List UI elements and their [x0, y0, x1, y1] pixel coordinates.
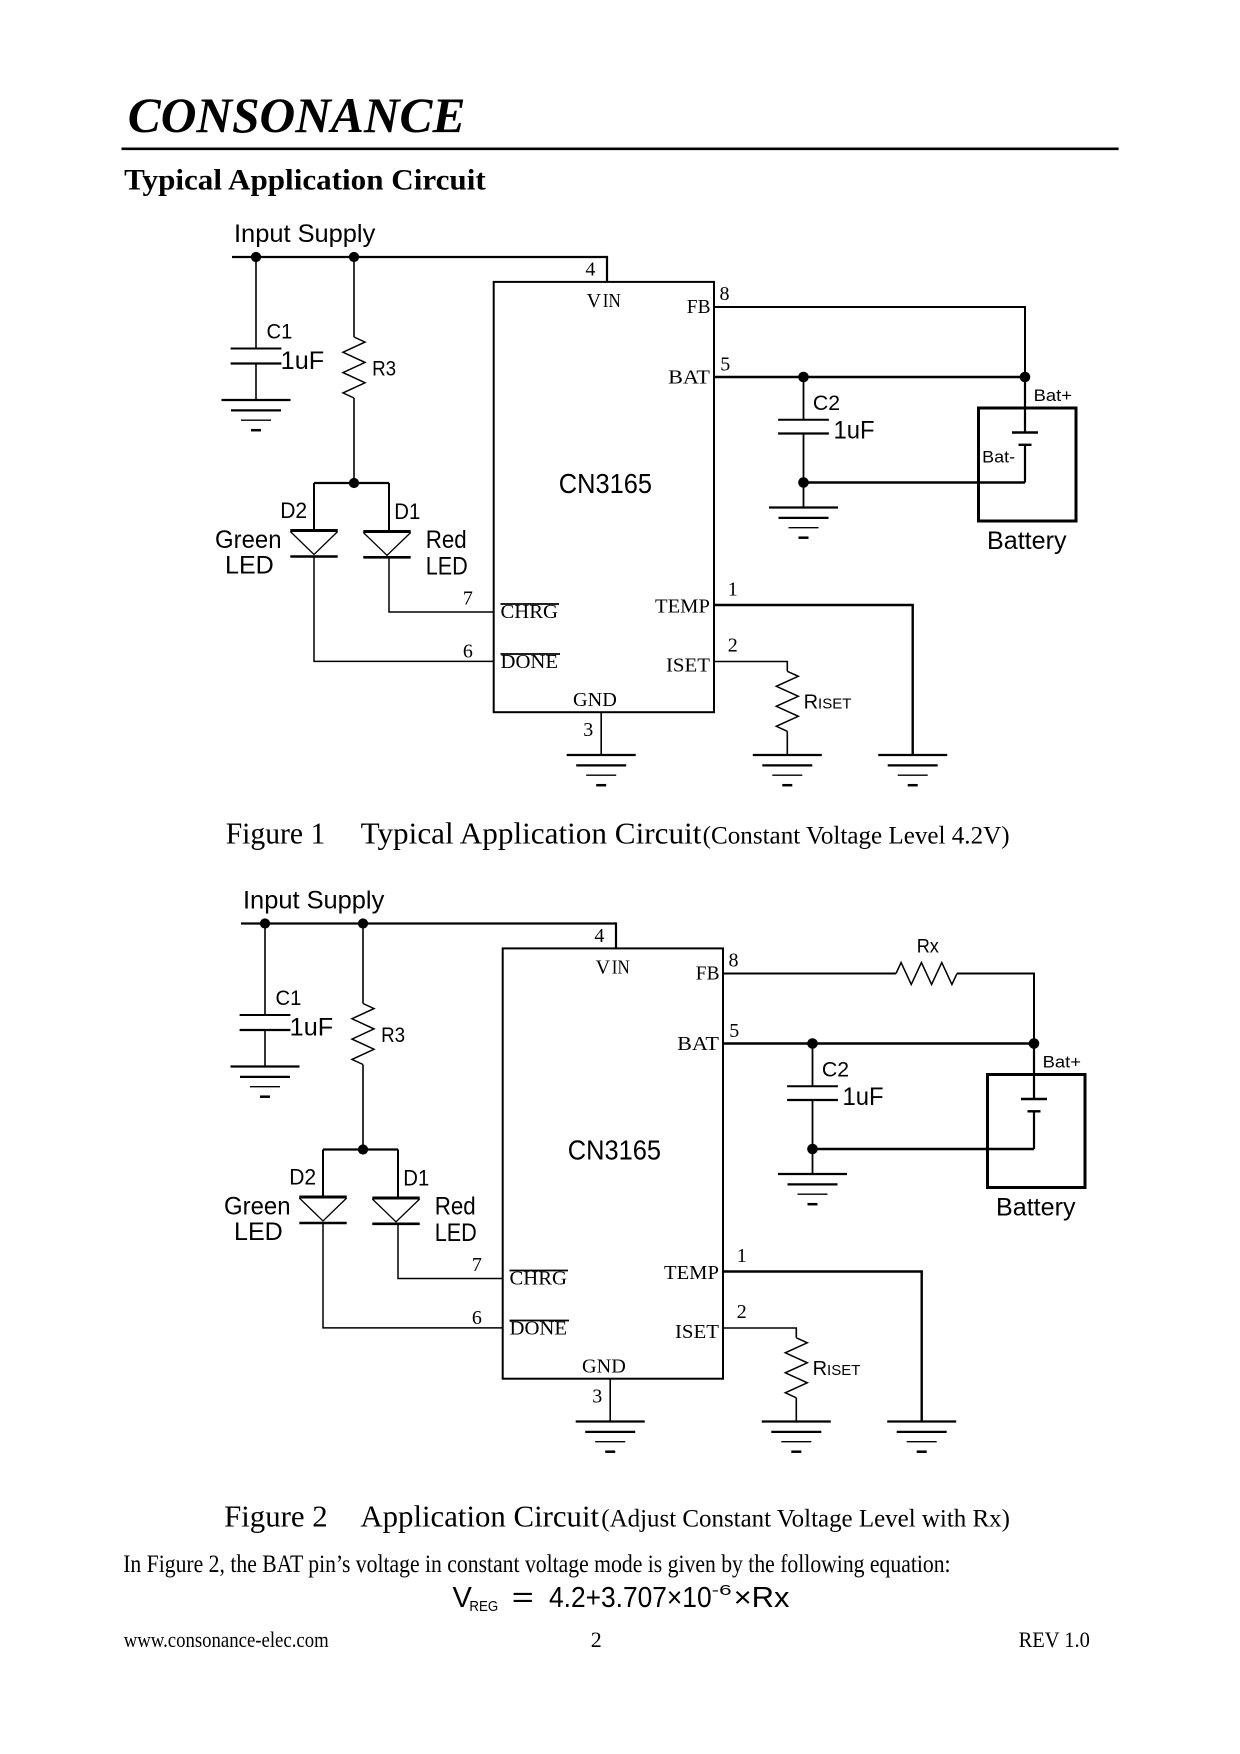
Fig2 junction BAT/C2 [807, 1038, 818, 1049]
svg-text:Input Supply: Input Supply [234, 220, 376, 248]
Fig1 wire GND pin 3 to ground [600, 712, 602, 755]
Fig1 wire C2 bottom [803, 434, 805, 483]
svg-text:CONSONANCE: CONSONANCE [128, 87, 466, 143]
Fig1 ground below C1 [222, 399, 291, 401]
svg-text:V: V [587, 290, 602, 312]
Fig2 capacitor C2 [787, 1085, 838, 1087]
Fig1 ground at GND [567, 754, 636, 756]
Fig2 wire ISET to RISET [723, 1328, 796, 1338]
Fig1 wire TEMP to ground [714, 605, 913, 755]
svg-text:×Rx: ×Rx [734, 1582, 790, 1614]
svg-text:C1: C1 [276, 987, 302, 1010]
svg-text:Bat+: Bat+ [1043, 1052, 1081, 1071]
Fig1 wire rail to R3 [353, 257, 355, 337]
Fig2 junction Bat+ [1029, 1038, 1040, 1049]
Fig1 resistor R3 [343, 337, 365, 398]
svg-text:D2: D2 [280, 498, 307, 523]
Fig1 ground below RISET [753, 754, 822, 756]
svg-text:=: = [512, 1582, 534, 1614]
Fig2 wire rail to C1 [264, 924, 266, 1016]
svg-text:8: 8 [720, 283, 730, 305]
svg-text:www.consonance-elec.com: www.consonance-elec.com [124, 1627, 329, 1652]
svg-text:GND: GND [582, 1355, 626, 1377]
Fig1 junction BAT/C2 [798, 372, 809, 383]
svg-text:1: 1 [728, 578, 738, 600]
Fig1 capacitor C1 [231, 348, 282, 350]
Fig2 wire LED rail [323, 1148, 398, 1150]
svg-text:2: 2 [737, 1301, 747, 1323]
svg-text:R3: R3 [372, 358, 396, 381]
svg-text:RISET: RISET [813, 1358, 861, 1380]
svg-text:Red: Red [426, 526, 467, 554]
svg-text:1uF: 1uF [843, 1083, 884, 1111]
Fig2 wire BAT to C2 [812, 1044, 814, 1087]
Fig2 wire C2 to ground [812, 1149, 814, 1174]
svg-text:CN3165: CN3165 [568, 1135, 661, 1166]
svg-text:LED: LED [435, 1219, 477, 1247]
Fig1 wire battery return [804, 481, 1026, 483]
svg-text:Green: Green [215, 526, 282, 554]
svg-text:REV 1.0: REV 1.0 [1019, 1627, 1090, 1652]
Fig2 wire FB to Rx [723, 973, 896, 975]
Fig1 ground below C2 [769, 506, 838, 508]
Fig1 junction rail/R3 [349, 252, 359, 262]
svg-text:D1: D1 [394, 499, 420, 524]
svg-text:RISET: RISET [804, 692, 852, 714]
Fig2 resistor R3 [352, 1004, 374, 1065]
svg-text:1uF: 1uF [290, 1014, 334, 1042]
Fig1 battery cell symbol [1012, 431, 1038, 433]
Fig1 wire FB to Bat+ [714, 307, 1025, 377]
svg-text:Battery: Battery [996, 1194, 1076, 1222]
Fig1 wire Bat+ into battery [1024, 377, 1026, 433]
svg-text:3: 3 [583, 719, 593, 741]
svg-text:LED: LED [234, 1218, 283, 1246]
svg-text:8: 8 [729, 950, 739, 972]
Fig2 wire R3 to LED rail [362, 1065, 364, 1150]
Fig1 wire battery negative [1024, 445, 1026, 483]
Fig2 wire GND pin 3 to ground [609, 1379, 611, 1422]
svg-text:7: 7 [472, 1254, 482, 1276]
Fig2 ground at TEMP [887, 1420, 956, 1422]
svg-text:2: 2 [728, 634, 738, 656]
svg-text:-6: -6 [712, 1582, 732, 1599]
svg-text:6: 6 [472, 1307, 482, 1329]
Fig1 junction LED rail [349, 478, 359, 488]
Fig2 ground at GND [576, 1420, 645, 1422]
svg-text:6: 6 [463, 640, 473, 662]
svg-text:(Adjust Constant Voltage Level: (Adjust Constant Voltage Level with Rx) [601, 1505, 1010, 1532]
svg-text:C2: C2 [822, 1059, 849, 1082]
Fig1 wire VIN pin 4 stub [606, 256, 608, 282]
svg-text:LED: LED [426, 553, 468, 581]
Fig2 wire RISET to ground [795, 1398, 797, 1422]
Fig2 wire input supply rail [241, 922, 616, 924]
svg-text:REG: REG [469, 1598, 498, 1615]
Fig1 resistor RISET [776, 671, 798, 731]
svg-text:7: 7 [463, 588, 473, 610]
Fig2 wire BAT rail [723, 1042, 1034, 1045]
svg-text:Input Supply: Input Supply [243, 887, 385, 915]
Fig2 ground below RISET [762, 1420, 831, 1422]
svg-text:BAT: BAT [677, 1033, 719, 1055]
svg-text:5: 5 [729, 1020, 739, 1042]
Fig2 battery cell symbol [1021, 1098, 1047, 1100]
Fig2 wire C1 to ground [264, 1030, 266, 1067]
Fig2 wire Bat+ into battery [1033, 1044, 1035, 1100]
svg-text:C2: C2 [813, 392, 840, 415]
Fig2 wire D1 anode [397, 1150, 399, 1199]
svg-text:Typical Application Circuit: Typical Application Circuit [361, 816, 702, 851]
Fig1 LED D2 [290, 529, 337, 532]
svg-text:Rx: Rx [917, 935, 939, 957]
svg-text:ISET: ISET [675, 1321, 719, 1343]
Fig1 wire RISET to ground [786, 731, 788, 755]
svg-text:Application Circuit: Application Circuit [360, 1498, 599, 1533]
svg-text:Bat+: Bat+ [1034, 386, 1072, 405]
svg-text:FB: FB [696, 963, 720, 985]
svg-text:CN3165: CN3165 [559, 468, 652, 499]
svg-text:Figure 1: Figure 1 [226, 816, 326, 851]
Fig2 IC CN3165 body [503, 948, 723, 1378]
Fig2 wire C2 bottom [812, 1100, 814, 1149]
Fig1 wire BAT to C2 [803, 377, 805, 420]
svg-text:ISET: ISET [666, 655, 710, 677]
Fig1 wire LED rail [314, 482, 389, 484]
svg-text:D2: D2 [289, 1164, 316, 1189]
Fig2 wire D2 anode [322, 1150, 324, 1198]
svg-text:FB: FB [687, 296, 711, 318]
Fig2 junction C2/battery return [807, 1144, 818, 1155]
Fig1 wire input supply rail [232, 256, 607, 258]
svg-text:2: 2 [591, 1627, 602, 1652]
svg-text:4: 4 [594, 925, 604, 947]
svg-text:1: 1 [737, 1245, 747, 1267]
svg-text:V: V [596, 957, 611, 979]
header rule [122, 148, 1119, 151]
Fig2 junction rail/R3 [358, 918, 368, 928]
Fig1 LED D1 [363, 530, 410, 533]
Fig1 wire D1 anode [388, 483, 390, 532]
Fig2 wire VIN pin 4 stub [615, 922, 617, 948]
Fig1 ground at TEMP [878, 754, 947, 756]
svg-text:In Figure 2, the BAT pin’s vol: In Figure 2, the BAT pin’s voltage in co… [123, 1551, 950, 1578]
Fig2 resistor Rx [896, 963, 957, 985]
Fig2 wire D2 cathode to DONE pin 6 [323, 1223, 503, 1328]
Fig1 battery box [979, 408, 1077, 521]
svg-text:TEMP: TEMP [655, 596, 710, 618]
Fig2 wire battery return [813, 1148, 1035, 1150]
Fig2 LED D1 [372, 1197, 419, 1200]
svg-text:1uF: 1uF [834, 417, 875, 445]
Fig2 resistor RISET [785, 1338, 807, 1398]
Fig2 ground below C1 [231, 1065, 300, 1067]
svg-text:Bat-: Bat- [982, 448, 1015, 467]
Fig2 wire rail to R3 [362, 924, 364, 1004]
Fig1 wire D1 cathode to CHRG pin 7 [389, 558, 494, 612]
Fig1 capacitor C2 [778, 419, 829, 421]
svg-text:R3: R3 [381, 1024, 405, 1047]
Fig2 ground below C2 [778, 1173, 847, 1175]
Fig1 wire R3 to LED rail [353, 398, 355, 483]
svg-text:Green: Green [224, 1193, 291, 1221]
svg-text:Red: Red [435, 1193, 476, 1221]
Fig2 wire Rx to Bat+ [957, 974, 1034, 1044]
svg-text:4: 4 [585, 258, 595, 280]
svg-text:3: 3 [592, 1386, 602, 1408]
Fig2 capacitor C1 [240, 1014, 291, 1016]
Fig1 wire C1 to ground [255, 364, 257, 401]
svg-text:LED: LED [225, 552, 274, 580]
svg-text:1uF: 1uF [281, 347, 325, 375]
svg-text:IN: IN [603, 290, 621, 312]
svg-text:Figure 2: Figure 2 [224, 1498, 328, 1533]
Fig1 wire D2 anode [313, 483, 315, 531]
svg-text:IN: IN [612, 957, 630, 979]
svg-text:GND: GND [573, 689, 617, 711]
Fig2 junction rail/C1 [260, 918, 270, 928]
Fig2 junction LED rail [358, 1144, 368, 1154]
Fig2 wire TEMP to ground [723, 1272, 922, 1422]
svg-text:Battery: Battery [987, 527, 1067, 555]
Fig1 wire rail to C1 [255, 257, 257, 349]
svg-text:Typical Application Circuit: Typical Application Circuit [124, 163, 486, 196]
Fig1 junction C2/battery return [798, 477, 809, 488]
Fig2 battery box [988, 1075, 1086, 1188]
Fig2 LED D2 [299, 1196, 346, 1199]
Fig2 wire D1 cathode to CHRG pin 7 [398, 1225, 503, 1279]
Fig1 wire D2 cathode to DONE pin 6 [314, 557, 494, 662]
svg-text:C1: C1 [267, 321, 293, 344]
svg-text:4.2+3.707×10: 4.2+3.707×10 [549, 1582, 712, 1614]
svg-text:D1: D1 [403, 1165, 429, 1190]
Fig1 wire ISET to RISET [714, 662, 787, 672]
svg-text:(Constant Voltage Level 4.2V): (Constant Voltage Level 4.2V) [703, 823, 1010, 850]
Fig1 IC CN3165 body [494, 282, 714, 712]
Fig1 wire BAT rail [714, 376, 1025, 379]
svg-text:TEMP: TEMP [664, 1262, 719, 1284]
Fig2 wire battery negative [1033, 1111, 1035, 1149]
svg-text:BAT: BAT [668, 367, 710, 389]
svg-text:5: 5 [720, 353, 730, 375]
Fig1 junction rail/C1 [251, 252, 261, 262]
Fig1 wire C2 to ground [803, 483, 805, 508]
Fig1 junction Bat+ [1020, 372, 1031, 383]
